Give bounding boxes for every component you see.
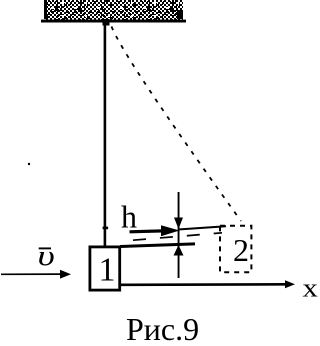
dashed string position 2 bbox=[112, 27, 242, 222]
stray speck bbox=[28, 163, 30, 165]
vertical dimension line bbox=[178, 192, 180, 278]
svg-text:1: 1 bbox=[99, 252, 116, 289]
svg-text:Рис.9: Рис.9 bbox=[126, 311, 199, 346]
velocity arrow v bbox=[1, 270, 71, 279]
svg-text:υ: υ bbox=[38, 240, 55, 272]
up arrowhead bbox=[174, 245, 184, 256]
bottom h-marker line (box1 top extended) bbox=[120, 244, 195, 247]
svg-text:h: h bbox=[121, 199, 137, 235]
down arrowhead bbox=[174, 218, 183, 230]
ceiling underline bbox=[41, 20, 186, 23]
x-axis bbox=[121, 280, 295, 288]
box 2 (dashed) bbox=[220, 226, 251, 272]
box 1 bbox=[90, 247, 120, 290]
trajectory dashes bbox=[133, 233, 222, 240]
svg-text:2: 2 bbox=[233, 232, 249, 268]
horizontal arrow to dimension line bbox=[130, 225, 180, 236]
svg-text:x: x bbox=[303, 275, 318, 303]
top h-marker line (continuation toward box 2) bbox=[178, 226, 226, 229]
string (vertical cord to box 1) bbox=[104, 22, 107, 246]
string attachment blob bbox=[103, 19, 110, 26]
ceiling block (hatched support) bbox=[44, 0, 183, 20]
string tick bbox=[103, 227, 109, 230]
label v-bar bbox=[38, 240, 55, 272]
